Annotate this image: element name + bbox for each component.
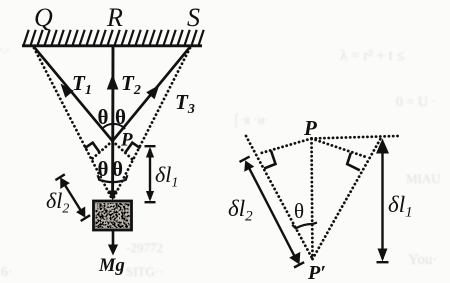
- svg-text:θ: θ: [98, 157, 109, 181]
- dotted line S to block top: [113, 48, 190, 199]
- svg-text:λ = r² + t ≤: λ = r² + t ≤: [340, 48, 405, 64]
- svg-text:θ: θ: [112, 157, 123, 181]
- angle arc at P': [292, 223, 317, 229]
- svg-text:MIAU: MIAU: [406, 171, 441, 186]
- svg-text:P: P: [303, 116, 317, 140]
- dotted perpendicular from P to left foot: [260, 139, 312, 154]
- angle arc at P (upper): [102, 124, 125, 129]
- dimension arrow delta-l1 (right figure): [377, 143, 389, 262]
- ceiling hatching: [24, 30, 204, 46]
- arrowhead at block top (string extension): [108, 191, 117, 201]
- svg-text:R: R: [106, 3, 123, 32]
- dimension arrow delta-l2 (right figure): [240, 157, 305, 268]
- svg-text:You·: You·: [408, 252, 437, 268]
- svg-text:P: P: [120, 130, 133, 151]
- right-angle mark right foot (right figure): [347, 153, 360, 171]
- svg-text:-29772: -29772: [126, 240, 163, 255]
- svg-text:SITG··: SITG··: [126, 264, 164, 279]
- svg-text:0 = U ·: 0 = U ·: [396, 95, 436, 110]
- tension arrowhead T3: [146, 85, 159, 99]
- right-angle mark left foot (right figure): [264, 151, 275, 169]
- tension arrowhead T2: [107, 74, 119, 90]
- angle arc at block top (lower): [98, 175, 128, 182]
- svg-text:P′: P′: [307, 262, 326, 283]
- dotted horizontal line right of P: [312, 136, 399, 139]
- dimension arrow delta-l2 (left figure): [55, 174, 90, 221]
- string Q-P: [34, 47, 113, 141]
- right-angle mark right foot: [125, 143, 140, 153]
- dotted vertical P to P': [312, 139, 313, 258]
- dimension arrow delta-l1 (left figure): [145, 146, 156, 202]
- dotted line P' toward S (steep right): [313, 137, 382, 259]
- tension arrowhead T1: [61, 84, 74, 98]
- svg-text:6·: 6·: [1, 265, 13, 280]
- weight arrow Mg: [112, 231, 115, 248]
- dotted line toward Q through P' (steep left): [246, 136, 313, 259]
- svg-text:θ: θ: [98, 105, 109, 129]
- dotted line Q to block top: [34, 48, 112, 199]
- svg-text:S: S: [187, 3, 200, 32]
- string S-P: [113, 47, 191, 141]
- svg-text:θ: θ: [294, 199, 304, 223]
- dotted perpendicular from P to right foot: [312, 139, 367, 158]
- svg-text:⌠·я ·и·: ⌠·я ·и·: [232, 112, 269, 128]
- ceiling line: [22, 44, 202, 47]
- dotted perpendicular P to right foot: [113, 141, 133, 160]
- svg-text:Mg: Mg: [98, 256, 125, 276]
- right-angle mark left foot: [85, 143, 100, 153]
- dotted perpendicular P to left foot: [92, 141, 113, 159]
- svg-text:θ: θ: [115, 105, 126, 129]
- svg-text:Q: Q: [34, 3, 53, 32]
- string R-P extended to block: [111, 47, 114, 198]
- svg-text:′·′: ′·′: [0, 45, 10, 59]
